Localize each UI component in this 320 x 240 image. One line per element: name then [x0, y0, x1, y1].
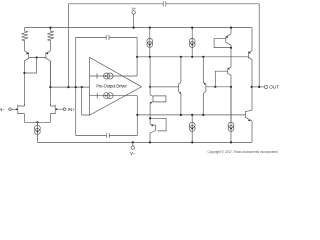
- svg-text:OUT: OUT: [269, 85, 279, 90]
- transistor Q10 output PNP: [249, 28, 253, 87]
- wire tail: [24, 121, 50, 123]
- resistor R1: [21, 28, 28, 51]
- transistor Q1 left mirror PNP: [24, 51, 28, 73]
- node dot comp left tap: [67, 86, 69, 88]
- wire second stage bias line: [137, 56, 248, 58]
- node dot bottom comp junction: [136, 114, 138, 116]
- wire base tie Q1 Q2: [29, 57, 46, 59]
- resistor R2: [47, 28, 54, 51]
- wire Q8 base: [150, 86, 179, 88]
- wire input node horizontal: [50, 86, 89, 88]
- wire miller right vertical upper: [136, 37, 138, 76]
- terminal IN-: [9, 108, 12, 111]
- terminal V-: [132, 141, 134, 143]
- node dot Q7 base tap: [149, 117, 151, 119]
- transistor Q7: [150, 118, 156, 142]
- svg-text:Copyright © 2017, Texas Instru: Copyright © 2017, Texas Instruments Inco…: [208, 150, 278, 154]
- wire left collector down to input device: [23, 73, 25, 106]
- wire output of driver: [150, 86, 179, 88]
- current source I1 tail: [36, 122, 38, 142]
- wire Q12 base: [215, 71, 227, 87]
- capacitor C1: [163, 1, 166, 6]
- wire OUT node: [252, 86, 265, 88]
- node dot base tie: [36, 56, 38, 58]
- current source I6: [191, 115, 193, 142]
- wire base to left collector: [24, 58, 36, 74]
- wire miller loop left vertical: [75, 37, 77, 135]
- svg-text:V+: V+: [132, 7, 136, 11]
- wire V+ rail: [25, 27, 253, 29]
- transistor Q9: [203, 57, 206, 115]
- node dot left collector junction: [23, 72, 25, 74]
- node dot V+ on rail: [133, 27, 135, 29]
- wire right vertical from top line down to OUT node: [258, 4, 260, 87]
- wire left vertical from top line down to input node: [68, 4, 70, 87]
- wire lower branch to triangle bottom corner: [82, 87, 90, 115]
- wire bottom loop with capacitor C3: [76, 135, 138, 137]
- wire V- rail: [37, 141, 252, 143]
- wire top compensation line: [69, 3, 260, 5]
- transistor Q3 input IN-: [11, 104, 24, 122]
- svg-text:V−: V−: [130, 151, 136, 156]
- wire Q6 base loop: [153, 96, 166, 102]
- current source I3 lower in triangle: [90, 93, 138, 99]
- node dot lower branch tap: [81, 86, 83, 88]
- wire Q9 base to out sense: [206, 86, 231, 88]
- transistor Q5 top right PNP: [226, 28, 231, 48]
- wire Q7 base loop: [150, 118, 166, 131]
- wire right collector down to input device: [49, 61, 51, 106]
- current source I5: [191, 28, 193, 57]
- transistor Q6: [150, 57, 153, 119]
- current source I4: [149, 28, 151, 57]
- capacitor C2: [106, 35, 109, 40]
- wire class AB base line: [137, 114, 245, 116]
- op-amp U1 Pre-Output Driver triangle: [90, 57, 142, 115]
- current source I2 upper in triangle: [90, 73, 138, 79]
- node dot R2 top: [49, 27, 51, 29]
- node dot right collector tap: [49, 86, 51, 88]
- node dot miller left tap: [75, 86, 77, 88]
- transistor Q8: [179, 57, 181, 115]
- transistor Q4 input IN+: [50, 104, 63, 122]
- node dot driver output: [149, 86, 151, 88]
- node dot Q7 emitter rail: [149, 141, 151, 143]
- node dot tail: [36, 121, 38, 123]
- wire bottom loop right vertical: [136, 96, 138, 136]
- node dot Q5 collector: [230, 47, 232, 49]
- svg-text:Pre-Output Driver: Pre-Output Driver: [96, 84, 127, 89]
- wire Q5 base loop: [214, 39, 231, 48]
- node dot comp to second stage line: [136, 56, 138, 58]
- terminal V+: [132, 11, 135, 14]
- terminal IN+: [63, 108, 66, 111]
- node dot Q12 collector to base line: [230, 86, 232, 88]
- capacitor C3: [106, 133, 109, 138]
- wire miller top with capacitor C2: [76, 36, 137, 38]
- current source I7: [230, 87, 232, 143]
- terminal OUT: [264, 85, 267, 88]
- transistor Q11 output NPN: [245, 87, 252, 142]
- node dot out sense tap: [214, 86, 216, 88]
- svg-text:IN−: IN−: [0, 107, 5, 112]
- svg-text:IN+: IN+: [68, 107, 75, 112]
- transistor Q2 right mirror PNP: [46, 51, 51, 87]
- transistor Q12 cascode PNP: [228, 48, 231, 122]
